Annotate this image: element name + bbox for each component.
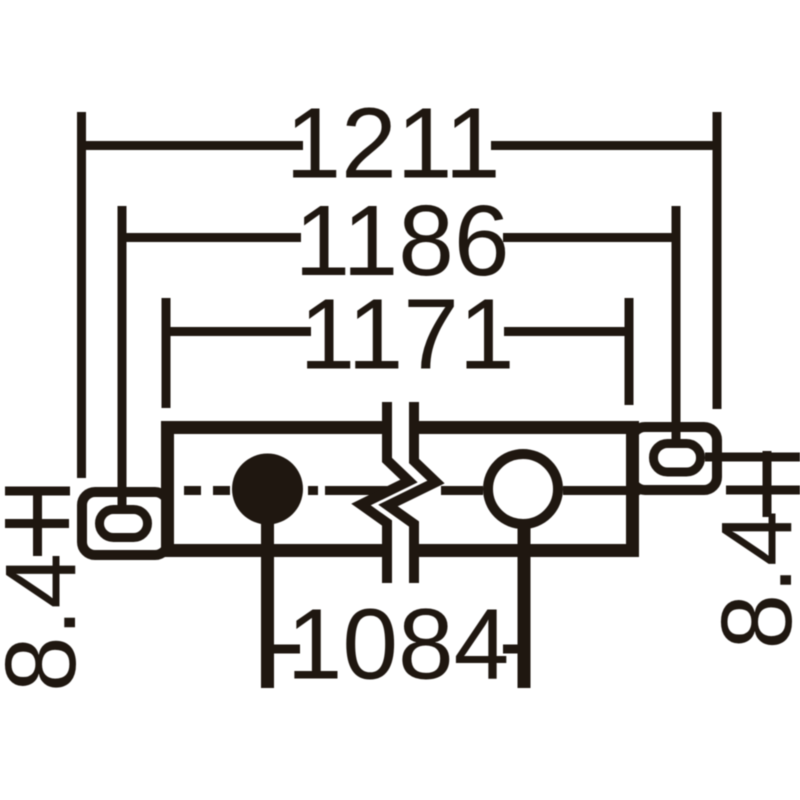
left mounting tab: [82, 492, 168, 555]
dim 1171 left extension line: [162, 298, 171, 408]
centerline dash a: [184, 486, 201, 495]
svg-text:8.4: 8.4: [701, 510, 800, 649]
dim 1211 left extension line: [77, 112, 86, 478]
centerline solid segment right of break: [441, 486, 483, 495]
centerline solid segment right of open circle: [563, 486, 640, 495]
dim 8.4 left bottom tick: [5, 519, 69, 528]
open socket circle right: [488, 454, 558, 524]
centerline left tick (8.4 top reference): [5, 487, 70, 496]
dim 8.4 right vertical line: [763, 451, 772, 517]
centerline solid segment left of break: [325, 486, 392, 495]
dim 1186 right extension line: [672, 206, 681, 444]
right mounting tab: [632, 427, 717, 490]
dim 1186 dimension line left segment: [122, 233, 301, 242]
right mounting slot: [654, 444, 701, 473]
break channel white fill: [361, 400, 436, 585]
open socket stem right: [518, 500, 531, 688]
break zigzag left stroke: [361, 402, 409, 583]
dim 1171 dimension line right segment: [504, 327, 629, 336]
black socket stem left: [261, 500, 274, 688]
centerline dash c: [308, 486, 318, 495]
dim 1186 dimension line right segment: [503, 233, 676, 242]
dim 1171 dimension line left segment: [166, 327, 311, 336]
break zigzag right stroke: [388, 402, 436, 583]
svg-text:8.4: 8.4: [0, 553, 97, 692]
dim 1211 dimension line right segment: [491, 141, 717, 150]
dim 1084 dimension line right segment: [503, 645, 524, 654]
svg-text:1084: 1084: [287, 589, 509, 701]
dim 1211 dimension line left segment: [82, 141, 304, 150]
dim 8.4 right slot-center line: [705, 453, 800, 462]
svg-text:1211: 1211: [285, 88, 500, 200]
centerline dash b: [213, 486, 230, 495]
dim 8.4 right centerline tick: [726, 486, 800, 495]
filled socket circle left: [232, 454, 303, 525]
dim 1171 right extension line: [625, 298, 634, 405]
svg-text:1171: 1171: [299, 279, 514, 391]
dim 1211 right extension line: [713, 112, 722, 409]
dim 8.4 left vertical line: [33, 487, 42, 556]
left mounting slot: [100, 510, 148, 538]
lamp body rectangle: [168, 428, 633, 551]
dim 1084 dimension line left segment: [268, 645, 301, 654]
dim 1186 left extension line: [118, 206, 127, 510]
